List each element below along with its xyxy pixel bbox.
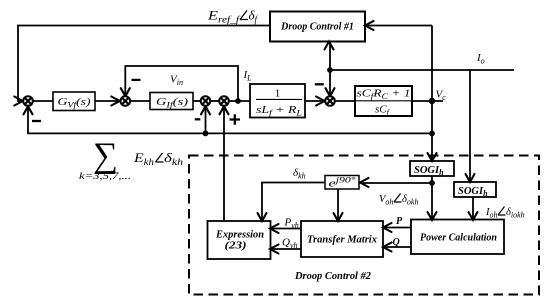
plus and minus signs [32, 80, 324, 125]
node Vc feedback corner [429, 131, 435, 137]
dashed box Droop Control #2 [189, 156, 539, 295]
svg-text:sCfRC + 1: sCfRC + 1 [357, 88, 411, 102]
svg-text:δiokh: δiokh [506, 207, 525, 220]
arrow into e_j90 right [360, 178, 369, 187]
svg-text:SOGIh: SOGIh [414, 165, 444, 177]
summing junctions [23, 96, 335, 106]
wire Vc bottom feedback line [28, 109, 432, 134]
block SOGI_h 2 [454, 182, 496, 197]
svg-text:δkh: δkh [293, 167, 306, 181]
svg-text:Vc: Vc [436, 89, 447, 103]
wire Io to Droop Control 1 bottom [329, 44, 331, 70]
node dots [203, 67, 436, 186]
arrow into junction4 bottom [220, 106, 229, 114]
node IL [235, 98, 241, 104]
arrow into junction5 top [326, 88, 335, 96]
summing junction 3 [201, 96, 211, 106]
svg-text:Qvh: Qvh [282, 237, 298, 251]
svg-text:Eref_f: Eref_f [207, 8, 241, 25]
summing junction 4 [219, 96, 229, 106]
node SOGI1 output [429, 180, 435, 186]
block 1/(sLf+RL) [250, 84, 305, 118]
wire Q [385, 246, 411, 248]
wire e_j90 bottom to Transfer Matrix [337, 189, 339, 219]
wire E_ref feedback top-left [18, 26, 270, 102]
summing junction 2 [121, 96, 131, 106]
wire SOGI1 output left to e_j90 [362, 182, 432, 184]
svg-text:ej90°: ej90° [329, 176, 357, 190]
wire G_If to junction3 [193, 100, 201, 102]
wire feedback up into junction3 [205, 109, 207, 134]
wire Qvh [272, 248, 301, 250]
svg-text:IL: IL [243, 69, 253, 83]
wire junction5 to Cf block [335, 100, 355, 102]
block SOGI_h 1 [410, 161, 454, 176]
svg-text:P: P [396, 216, 403, 227]
arrow into Expression top [258, 213, 267, 221]
summing junction 1 [23, 96, 33, 106]
minus at junction2 top [132, 79, 141, 81]
wire P [385, 227, 411, 229]
arrow Qvh into Expression right [270, 245, 279, 254]
minus at junction5 top [315, 83, 324, 85]
arrow into Power Calculation top from SOGI2 [469, 212, 478, 220]
node Io branch [327, 67, 333, 73]
svg-text:Power Calculation: Power Calculation [420, 233, 497, 244]
wire junction4 to LF block [229, 100, 250, 102]
block Expression (23) [208, 221, 271, 259]
wire Vc vertical [431, 26, 433, 160]
svg-text:Ekh: Ekh [133, 150, 155, 167]
wire Io down into junction5 [329, 70, 331, 94]
wire Pvh [272, 228, 301, 230]
block GVf [53, 92, 95, 111]
plus at junction4 bottom [230, 114, 241, 125]
svg-text:sCf: sCf [375, 104, 391, 118]
block e_j90 [325, 176, 359, 190]
block (sCfRC+1)/sCf [355, 86, 412, 116]
svg-text:(23): (23) [225, 240, 247, 252]
wire SOGI2 output down to Power Calculation [472, 197, 474, 218]
node feedback j3 [203, 131, 209, 137]
arrow into SOGI2 top [466, 174, 475, 182]
svg-text:Io: Io [476, 52, 485, 66]
wire SOGI1 output down to Power Calculation [431, 176, 433, 218]
arrow P into Transfer Matrix right [383, 223, 392, 232]
minus at junction1 bottom [32, 120, 41, 122]
wire Cf block to Vc node [412, 100, 443, 102]
wire G_Vf to junction2 [95, 100, 118, 102]
wire Io line [330, 69, 514, 71]
block Transfer Matrix [301, 221, 383, 257]
svg-text:δkh: δkh [164, 150, 184, 167]
svg-text:Transfer Matrix: Transfer Matrix [307, 235, 377, 246]
svg-text:sLf + RL: sLf + RL [256, 104, 303, 118]
svg-text:Q: Q [393, 237, 400, 248]
summing junction 5 [325, 96, 335, 106]
svg-text:Droop Control #2: Droop Control #2 [294, 271, 371, 282]
wire junction1 to G_Vf [33, 100, 53, 102]
wire IL feedback loop [125, 66, 238, 101]
arrow into Droop Control 1 bottom [325, 42, 334, 50]
svg-text:Voh: Voh [379, 194, 393, 207]
svg-text:Ioh: Ioh [485, 207, 498, 220]
block Power Calculation [411, 220, 504, 255]
arrow into SOGI1 top [428, 153, 437, 161]
wire Vc to Droop Control 1 [368, 25, 433, 27]
block Droop Control #1 [270, 12, 365, 42]
arrow into Transfer Matrix top [334, 213, 343, 221]
arrow Q into Transfer Matrix right [383, 243, 392, 252]
wire harmonic injection vertical [223, 109, 225, 222]
svg-text:k=3,5,7,...: k=3,5,7,... [79, 171, 131, 181]
arrow into junction1 bottom [24, 106, 33, 114]
svg-text:SOGIh: SOGIh [458, 186, 488, 198]
svg-text:GIf(s): GIf(s) [156, 96, 188, 110]
arrow into Power Calculation top from SOGI1 [428, 212, 437, 220]
arrow into Droop Control 1 right [365, 21, 374, 30]
arrow into junction2 top [121, 88, 130, 96]
arrow Pvh into Expression right [270, 224, 279, 233]
arrow into junction5 left [316, 97, 325, 106]
wire LF block to junction5 [305, 100, 323, 102]
svg-text:GVf(s): GVf(s) [58, 96, 91, 110]
wire junction3 to junction4 [210, 100, 219, 102]
svg-text:Pvh: Pvh [284, 217, 299, 231]
svg-text:Vin: Vin [170, 74, 183, 88]
minus at junction3 bottom [195, 118, 201, 120]
svg-text:Droop Control #1: Droop Control #1 [280, 22, 354, 33]
node Vc [429, 98, 435, 104]
wire Io branch down to SOGI2 [469, 70, 471, 180]
svg-text:δokh: δokh [402, 194, 418, 207]
block GIf [150, 93, 193, 110]
svg-text:1: 1 [275, 88, 281, 100]
arrow into junction2 left [111, 97, 120, 106]
svg-text:δf: δf [249, 8, 259, 25]
arrow into junction1 left [14, 97, 22, 106]
wire junction2 to G_If [130, 100, 150, 102]
arrow into junction3 bottom [201, 106, 210, 114]
arrowheads (barb style) [14, 21, 477, 254]
svg-text:∑: ∑ [93, 136, 118, 175]
wire e_j90 left to Expression [262, 183, 325, 220]
